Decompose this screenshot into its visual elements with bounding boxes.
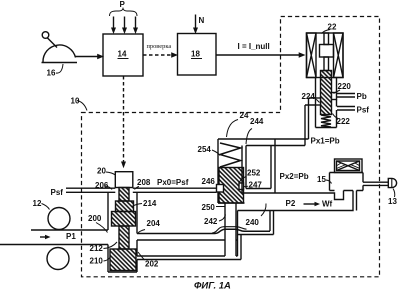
- label 224 leader: [314, 98, 320, 103]
- node N arrow: [193, 15, 198, 35]
- svg-text:14: 14: [118, 50, 127, 59]
- node P2 arrow Wf: [304, 202, 321, 206]
- svg-text:208: 208: [137, 178, 151, 187]
- svg-text:206: 206: [95, 181, 109, 190]
- svg-text:214: 214: [143, 199, 157, 208]
- svg-text:Px0=Psf: Px0=Psf: [157, 178, 189, 187]
- spring 254: [212, 143, 241, 167]
- svg-text:P2: P2: [286, 199, 296, 208]
- svg-text:Px2=Pb: Px2=Pb: [280, 172, 309, 181]
- plug 13: [388, 178, 396, 197]
- svg-text:проверка: проверка: [147, 43, 172, 50]
- pipe Psf right: [337, 107, 355, 111]
- svg-text:212: 212: [90, 244, 104, 253]
- svg-text:202: 202: [145, 260, 159, 269]
- rod to 13: [363, 182, 388, 185]
- node P brace and arrows: [110, 9, 139, 35]
- svg-text:15: 15: [317, 175, 326, 184]
- wire проверка 14 to 18: [143, 52, 178, 57]
- svg-text:246: 246: [202, 177, 216, 186]
- svg-text:204: 204: [147, 219, 161, 228]
- box 14: [103, 34, 143, 76]
- svg-text:12: 12: [33, 199, 42, 208]
- housing walls of valve 22: [316, 78, 337, 128]
- svg-text:Pb: Pb: [357, 92, 367, 101]
- valve 24 housing: [218, 120, 252, 204]
- svg-text:Psf: Psf: [357, 106, 370, 115]
- svg-text:16: 16: [47, 69, 56, 78]
- svg-text:N: N: [199, 16, 205, 25]
- svg-text:200: 200: [88, 214, 102, 223]
- svg-text:18: 18: [191, 50, 200, 59]
- pipe 204 with hop: [137, 227, 270, 240]
- svg-text:ФИГ. 1А: ФИГ. 1А: [194, 281, 231, 291]
- svg-text:242: 242: [204, 217, 218, 226]
- spool 220 of valve 22: [316, 71, 341, 115]
- solenoid coil 22: [307, 30, 344, 78]
- node P1 arrow: [40, 235, 51, 239]
- svg-text:10: 10: [71, 97, 80, 106]
- spool 214 of central valve: [96, 188, 145, 271]
- svg-text:254: 254: [198, 145, 212, 154]
- pipe 250/242 down: [216, 203, 236, 256]
- svg-text:I = I_null: I = I_null: [238, 42, 270, 51]
- central valve inlet box 20: [106, 172, 133, 188]
- svg-text:Wf: Wf: [322, 200, 333, 209]
- wire 16 to 14: [76, 54, 105, 59]
- svg-text:13: 13: [388, 197, 397, 206]
- box 240: [238, 204, 274, 235]
- svg-text:Psf: Psf: [51, 188, 64, 197]
- pipe Px1=Pb horizontal: [218, 139, 309, 146]
- piston 252 of valve 24: [217, 168, 249, 204]
- pipe Px1 down from valve 22: [305, 98, 316, 146]
- svg-text:20: 20: [97, 167, 106, 176]
- pipe Pb: [337, 94, 355, 98]
- svg-text:220: 220: [338, 82, 352, 91]
- wire I=I_null 18 to 22: [216, 52, 306, 57]
- pipe Psf left: [66, 188, 115, 192]
- svg-text:222: 222: [337, 117, 351, 126]
- svg-text:P1: P1: [66, 232, 76, 241]
- chamber 244: [242, 139, 275, 193]
- spring 222: [321, 114, 338, 128]
- svg-text:240: 240: [246, 218, 260, 227]
- svg-text:224: 224: [302, 92, 316, 101]
- pipe P2 channel: [242, 191, 353, 211]
- svg-text:Px1=Pb: Px1=Pb: [311, 137, 340, 146]
- boundary 10 dashed: [82, 17, 380, 277]
- label 10: [77, 101, 87, 111]
- svg-text:247: 247: [249, 181, 263, 190]
- svg-text:210: 210: [90, 257, 104, 266]
- lever 16: [42, 32, 78, 73]
- svg-text:22: 22: [328, 23, 337, 32]
- metering valve 15: [326, 159, 363, 211]
- pipe P1 lower line: [0, 244, 108, 246]
- svg-text:P: P: [120, 0, 126, 9]
- pipe P1 upper line: [31, 229, 108, 231]
- pump 12: [42, 204, 71, 270]
- dashed wire 14 to 20: [121, 76, 126, 168]
- return pipe bottom: [137, 235, 241, 260]
- svg-text:244: 244: [250, 117, 264, 126]
- box 18: [178, 34, 217, 76]
- central valve housing: [108, 192, 137, 272]
- pipe Px0=Psf: [105, 186, 217, 192]
- svg-text:250: 250: [202, 203, 216, 212]
- svg-text:24: 24: [240, 111, 249, 120]
- svg-text:252: 252: [247, 169, 261, 178]
